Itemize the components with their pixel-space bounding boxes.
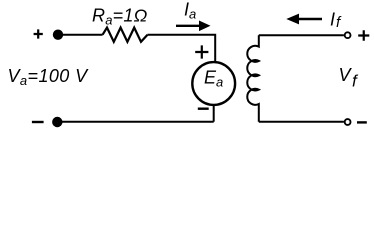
plus sign (Vf +) — [358, 30, 369, 41]
node dot top-left — [53, 30, 63, 40]
bottom wire right — [259, 121, 344, 123]
minus sign (Ea -) — [198, 107, 209, 109]
bottom wire left — [58, 121, 214, 123]
minus sign (Va -) — [32, 121, 44, 123]
minus sign (Vf -) — [357, 121, 367, 123]
svg-text:Va=100 V: Va=100 V — [8, 66, 90, 88]
svg-text:Ra=1Ω: Ra=1Ω — [92, 6, 148, 28]
plus sign (Ea +) — [195, 45, 208, 58]
source Ea circle — [192, 62, 235, 105]
node dot bottom-left — [52, 117, 62, 127]
wire (resistor to corner, down to Ea) — [148, 35, 216, 63]
wire (Ea bottom to bottom rail) — [213, 105, 215, 122]
terminal ring top-right — [345, 32, 351, 38]
terminal ring bottom-right — [345, 119, 351, 125]
resistor R1 — [103, 28, 148, 42]
current arrow If — [298, 18, 322, 20]
top wire right — [259, 34, 344, 36]
inductor L1 (field coil) — [247, 35, 259, 122]
plus sign (Va +) — [34, 29, 43, 38]
current arrow Ia — [176, 25, 200, 27]
wire (dot to resistor) — [58, 34, 103, 36]
